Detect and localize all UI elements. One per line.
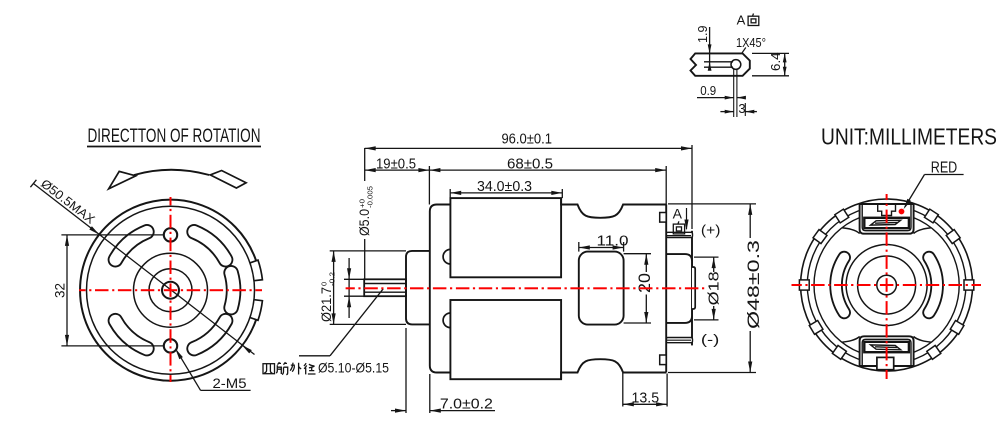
label 四筋外径Ø5.10-Ø5.15 <box>263 360 389 376</box>
svg-text:0.9: 0.9 <box>700 83 716 98</box>
dimension 32 extension lines <box>61 235 164 346</box>
dimension 0.9 <box>697 83 746 100</box>
dimension 20 <box>636 254 654 323</box>
ext lines 7.0 <box>406 328 430 413</box>
dimension 3 <box>720 101 757 116</box>
front vent slot SE <box>194 321 226 349</box>
boss bump upper <box>443 249 450 264</box>
ext lines Ø48 <box>668 204 756 373</box>
rear endbell face edge <box>691 231 693 346</box>
ext lines Ø21.7 <box>330 251 406 325</box>
svg-text:32: 32 <box>53 283 68 298</box>
front view centerlines <box>79 197 262 382</box>
rear bearing bump <box>692 267 695 309</box>
dimension 1.9 <box>695 25 712 70</box>
svg-text:A: A <box>673 206 683 222</box>
ext lines 11.0 <box>579 242 624 252</box>
svg-text:19±0.5: 19±0.5 <box>376 157 416 173</box>
svg-text:7.0±0.2: 7.0±0.2 <box>440 395 493 412</box>
front view outer circle (flange edge) <box>80 200 256 381</box>
dimension 7.0±0.2 <box>391 395 495 412</box>
label 2-M5 <box>175 349 250 391</box>
dimension 19±0.5 <box>365 157 430 173</box>
ext lines Ø18 <box>694 257 719 320</box>
dimension 11.0 <box>579 234 629 250</box>
detail hole extension lines <box>734 69 746 117</box>
rear terminal housing bottom <box>860 336 914 366</box>
label RED <box>904 160 964 210</box>
ext lines Ø5.0 <box>344 279 364 296</box>
svg-text:6.4: 6.4 <box>768 52 783 70</box>
rear terminal housing top <box>860 204 914 234</box>
dimension Ø18 <box>705 257 722 320</box>
front shaft circle <box>162 282 179 299</box>
rear rim crimp tabs <box>799 209 973 359</box>
svg-text:-0.005: -0.005 <box>366 186 375 208</box>
svg-text:34.0±0.3: 34.0±0.3 <box>477 179 532 195</box>
dimension Ø48±0.3 <box>745 204 763 373</box>
view A marker at rear terminal <box>673 206 689 234</box>
rear center circle big <box>846 245 927 326</box>
svg-text:96.0±0.1: 96.0±0.1 <box>501 132 552 148</box>
front vent slot SW <box>115 321 146 349</box>
can bottom edge with commutator dip <box>561 359 666 379</box>
leader Ø50.5MAX <box>30 176 254 354</box>
front bearing boss Ø21.7 <box>406 251 430 325</box>
front rim tab upper-right <box>250 260 263 281</box>
front vent slot NE <box>194 232 226 260</box>
svg-text:11.0: 11.0 <box>597 234 629 250</box>
crimp tab upper <box>660 213 667 223</box>
leader 四筋外径Ø5.10-Ø5.15 <box>299 289 383 356</box>
middle view centerline <box>346 287 355 289</box>
dimension 68±0.5 <box>429 157 666 173</box>
svg-text:Ø18: Ø18 <box>705 271 722 305</box>
rear vent slot left <box>836 258 844 313</box>
front view inner rim circle <box>87 206 255 374</box>
svg-text:UNIT:MILLIMETERS: UNIT:MILLIMETERS <box>821 124 997 150</box>
svg-text:Ø5.10-Ø5.15: Ø5.10-Ø5.15 <box>318 360 389 376</box>
svg-text:(+): (+) <box>701 223 721 238</box>
svg-text:3: 3 <box>738 101 745 116</box>
front boss circle <box>149 269 192 312</box>
svg-text:Ø21.7: Ø21.7 <box>319 287 334 322</box>
dimension 13.5 <box>623 390 667 406</box>
svg-text:DIRECTTON OF ROTATION: DIRECTTON OF ROTATION <box>88 125 261 147</box>
ext line 19/68 left <box>428 166 430 205</box>
svg-text:2-M5: 2-M5 <box>213 375 247 391</box>
ext lines 20 <box>624 254 651 323</box>
front vent slot NW <box>115 232 146 260</box>
front rim tab lower-right <box>250 300 263 321</box>
rotation direction arc symbol <box>109 170 247 189</box>
front endbell outline <box>430 205 451 373</box>
rear shaft hole <box>877 275 897 295</box>
crimp tab lower <box>660 355 667 365</box>
svg-text:1X45°: 1X45° <box>736 36 766 50</box>
svg-text:-0.2: -0.2 <box>328 272 337 286</box>
detail view title A向 <box>737 13 759 28</box>
leader 1X45° <box>736 36 766 53</box>
can lower rectangle <box>450 300 561 379</box>
svg-text:(-): (-) <box>701 332 720 347</box>
shaft <box>364 279 406 296</box>
dimension 6.4 <box>752 52 789 75</box>
screw hole 2-M5 top <box>164 228 177 241</box>
ext line 68 right <box>665 166 667 205</box>
front vent slot E <box>231 273 233 308</box>
dimension 32 <box>53 235 70 346</box>
rear rim circle 2 <box>807 206 966 365</box>
svg-text:1.9: 1.9 <box>695 25 710 43</box>
screw hole 2-M5 bottom <box>164 339 177 352</box>
rear rim circle 3 <box>814 212 959 357</box>
dimension 96.0±0.1 <box>365 132 692 151</box>
dimension 34.0±0.3 <box>450 179 562 195</box>
can/endbell junction line <box>665 205 667 373</box>
detail slot lines <box>704 62 733 67</box>
ext lines 96.0 <box>365 145 692 279</box>
title: DIRECTTON OF ROTATION <box>87 125 261 147</box>
svg-text:Ø5.0: Ø5.0 <box>357 209 372 236</box>
svg-text:13.5: 13.5 <box>632 390 660 406</box>
can top edge with commutator dip <box>561 198 666 218</box>
front hub circle <box>134 253 208 327</box>
terminal tab top (side view) <box>666 232 692 237</box>
svg-text:20: 20 <box>636 273 654 293</box>
rear view centerlines <box>792 194 982 379</box>
ext lines 34.0 <box>450 189 562 198</box>
detail hole <box>731 60 741 70</box>
commutator window <box>579 252 624 325</box>
rear boss Ø18 section <box>666 254 692 323</box>
dimension Ø5.0 +0 -0.005 <box>347 186 375 318</box>
red dot marker <box>899 209 905 215</box>
svg-text:A: A <box>737 13 746 28</box>
dimension Ø21.7 0 -0.2 <box>319 251 337 325</box>
boss bump lower <box>443 313 450 328</box>
svg-text:68±0.5: 68±0.5 <box>507 157 553 173</box>
ext lines 13.5 <box>623 373 667 407</box>
svg-text:Ø48±0.3: Ø48±0.3 <box>745 240 763 329</box>
terminal tab bottom (side view) <box>666 338 692 343</box>
detail terminal outline <box>691 53 750 75</box>
rear vent slot right <box>929 258 937 313</box>
rear center circle mid <box>858 256 916 314</box>
rear outer circle <box>801 199 973 371</box>
can upper rectangle (34.0 section) <box>450 198 561 277</box>
